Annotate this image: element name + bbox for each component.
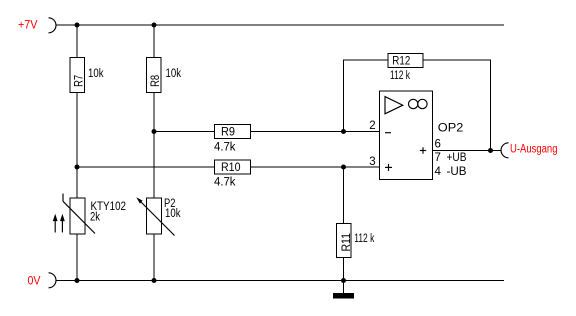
op-amp OP2 <box>369 91 467 180</box>
svg-text:R8: R8 <box>150 75 162 87</box>
wire R10 left <box>77 166 215 168</box>
potentiometer P2 <box>136 197 180 235</box>
svg-text:3: 3 <box>369 156 375 168</box>
svg-text:+UB: +UB <box>447 152 467 164</box>
svg-text:+7V: +7V <box>18 19 38 31</box>
svg-text:R10: R10 <box>221 162 241 174</box>
terminal 0V <box>28 273 57 288</box>
wire R8 top <box>153 25 155 58</box>
node pin3 / R11 junction <box>341 165 346 170</box>
resistor R8 <box>147 58 182 93</box>
node bottom rail / KTY102 <box>75 278 80 283</box>
wire bottom 0V rail <box>56 280 504 282</box>
resistor R11 <box>337 224 375 258</box>
svg-text:10k: 10k <box>165 208 181 220</box>
node top rail / R8 <box>152 23 157 28</box>
wire R10 right to op-amp pin 3 <box>251 166 380 168</box>
resistor R10 <box>214 160 251 189</box>
node output / R12 junction <box>488 148 493 153</box>
resistor R7 <box>70 58 104 93</box>
wire R9 left <box>154 131 215 133</box>
svg-text:112 k: 112 k <box>390 70 410 82</box>
wire R7 bottom to KTY102 <box>76 93 78 199</box>
wire R12 right leg <box>423 60 491 151</box>
wire R12 left leg <box>344 60 389 132</box>
svg-text:U-Ausgang: U-Ausgang <box>510 144 558 156</box>
wire R7 top <box>76 25 78 58</box>
resistor R12 <box>388 54 423 83</box>
wire KTY102 bottom <box>76 234 78 281</box>
node bottom rail / ground <box>341 278 346 283</box>
svg-text:6: 6 <box>435 139 441 151</box>
svg-text:4.7k: 4.7k <box>214 142 236 154</box>
wire R11 top <box>343 167 345 224</box>
ground <box>333 281 354 299</box>
svg-text:R11: R11 <box>341 233 353 252</box>
wire R9 right to op-amp pin 2 <box>251 131 380 133</box>
resistor R9 <box>214 125 251 154</box>
node bottom rail / P2 <box>152 278 157 283</box>
wire P2 bottom <box>153 234 155 281</box>
terminal U-Ausgang <box>501 143 557 158</box>
svg-text:112 k: 112 k <box>354 233 374 245</box>
sensor KTY102 <box>63 194 126 235</box>
svg-text:10k: 10k <box>88 68 104 80</box>
node top rail / R7 <box>75 23 80 28</box>
terminal +7V <box>18 18 56 33</box>
svg-text:0V: 0V <box>28 275 41 287</box>
wire top +7V rail <box>56 24 504 26</box>
wire op-amp output <box>433 150 502 152</box>
wire R11 bottom <box>343 258 345 281</box>
arrows of KTY102 <box>53 214 65 233</box>
svg-text:-UB: -UB <box>447 166 467 178</box>
svg-text:R9: R9 <box>221 127 235 139</box>
svg-text:4: 4 <box>435 166 442 178</box>
svg-text:2: 2 <box>369 120 375 132</box>
svg-text:R12: R12 <box>392 56 410 68</box>
node R10 tap on left column <box>75 165 80 170</box>
node pin2 / R12 junction <box>341 129 346 134</box>
node R9 tap on middle column <box>152 129 157 134</box>
svg-text:R7: R7 <box>73 75 85 87</box>
wire R8 bottom to P2 <box>153 93 155 199</box>
svg-text:OP2: OP2 <box>438 123 464 135</box>
svg-text:7: 7 <box>435 152 441 164</box>
svg-text:10k: 10k <box>166 68 182 80</box>
svg-text:2k: 2k <box>90 212 100 224</box>
svg-text:4.7k: 4.7k <box>214 177 236 189</box>
